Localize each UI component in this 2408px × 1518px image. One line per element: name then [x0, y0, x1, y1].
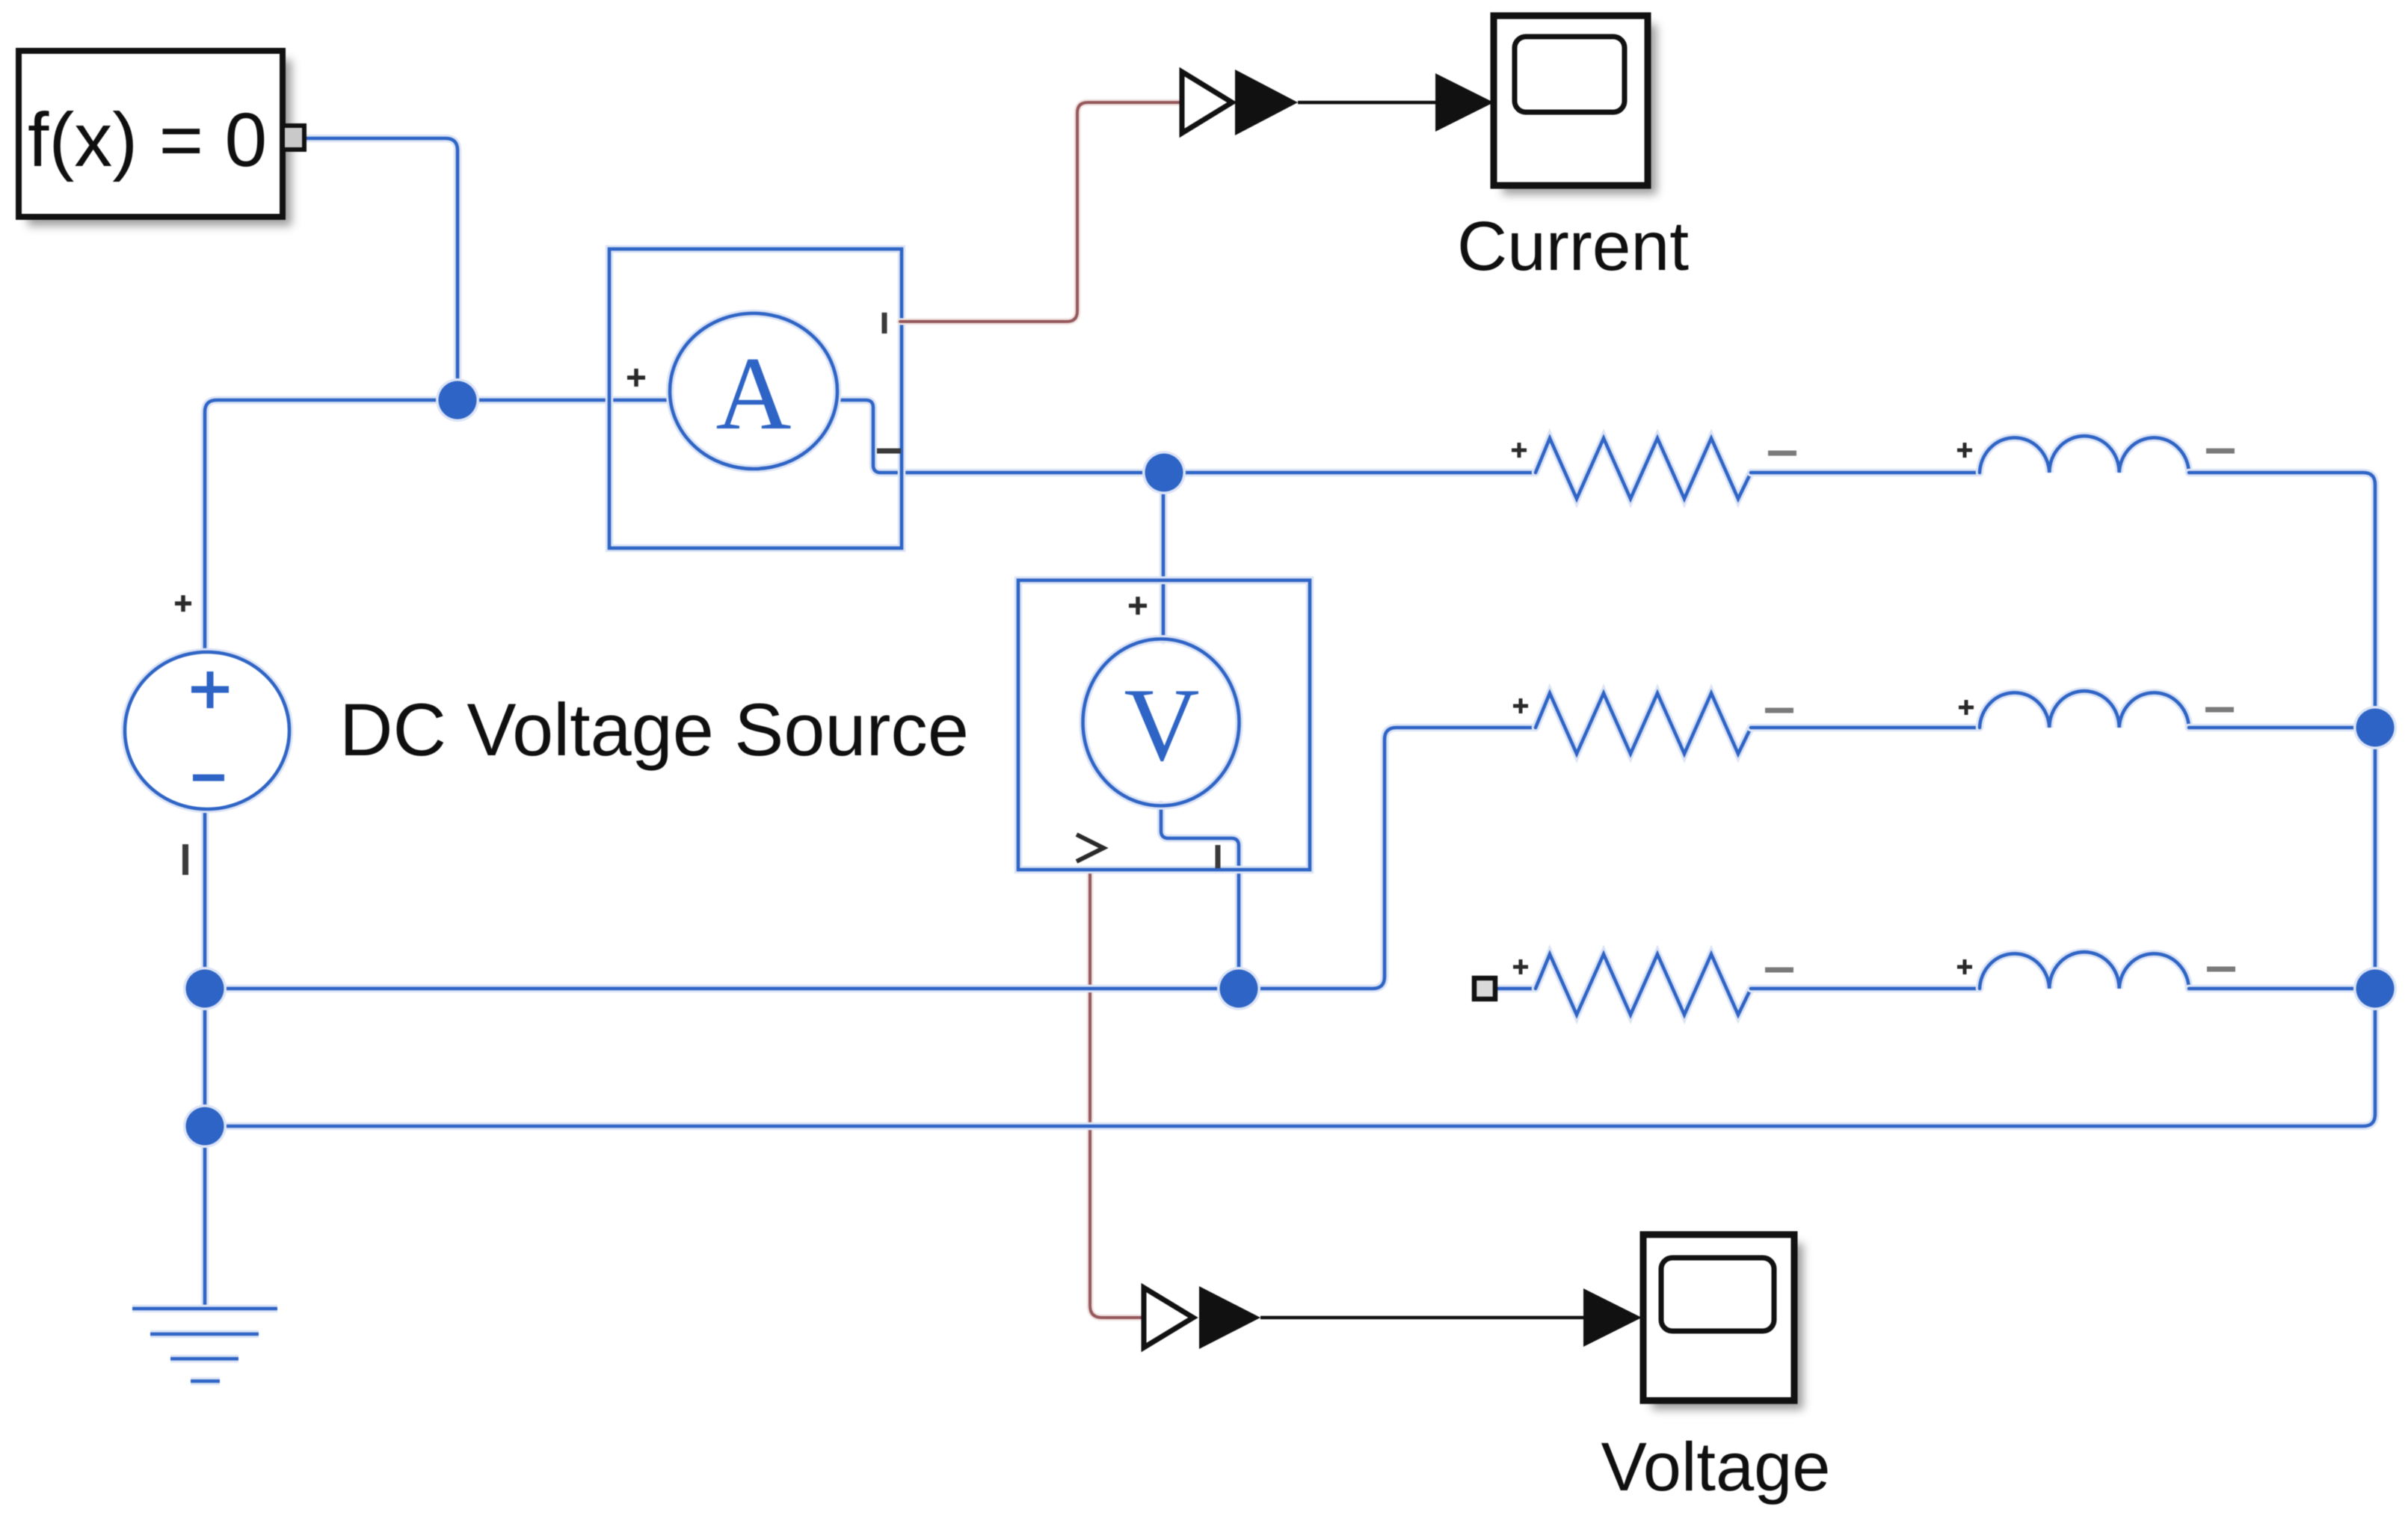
PS-Simulink converter 2	[1144, 1286, 1260, 1349]
node D junction (voltmeter minus / mid rail)	[1217, 967, 1260, 1010]
wire: DC source + terminal up and right to ammeter + input	[205, 400, 671, 652]
R1 - pin label	[1768, 451, 1796, 456]
Voltage scope block	[1643, 1235, 1794, 1401]
L2 - pin label	[2205, 707, 2234, 713]
shadow of Current scope	[1503, 25, 1657, 194]
svg-text:A: A	[715, 336, 791, 452]
resistor R2	[1536, 693, 1751, 754]
DC source + pin label	[175, 595, 191, 612]
L3 + pin label	[1957, 959, 1972, 974]
ground symbol	[132, 1309, 277, 1381]
R3 + pin label	[1513, 959, 1528, 974]
signal wire to Current scope	[1298, 73, 1494, 132]
label: Voltage	[1601, 1429, 1831, 1505]
R2 - pin label	[1765, 708, 1793, 713]
svg-text:Current: Current	[1457, 207, 1689, 285]
node C junction (DC minus / mid rail)	[183, 967, 227, 1010]
wire: mid rail from DC source minus to node D then up to resistor R2 (middle branch)	[205, 728, 1536, 989]
node B junction	[1142, 451, 1186, 494]
ammeter I pin label	[882, 313, 887, 334]
DC source - pin label (rotated)	[182, 844, 188, 875]
voltmeter + pin label	[1129, 597, 1147, 615]
wire: solver output down to node A	[304, 138, 458, 400]
open conserving port of R3	[1474, 978, 1495, 999]
ammeter U1 (current sensor)	[609, 249, 902, 548]
voltmeter V pin label (rotated V)	[1077, 835, 1103, 861]
wire: node B down to voltmeter + input	[1160, 473, 1168, 640]
svg-text:f(x) = 0: f(x) = 0	[28, 97, 267, 182]
svg-text:V: V	[1124, 667, 1199, 783]
DC voltage source V1	[125, 652, 289, 809]
solver block f(x)=0	[19, 51, 283, 217]
inductor L1	[1980, 436, 2189, 473]
resistor R3	[1536, 954, 1751, 1015]
shadow of solver block	[28, 60, 292, 226]
wire: R3 to L3	[1751, 985, 1980, 993]
L1 - pin label	[2206, 449, 2235, 454]
wire: ammeter I output (physical signal) to converter 1	[900, 102, 1181, 322]
node A junction	[436, 378, 479, 422]
inductor L3	[1980, 952, 2189, 989]
PS-Simulink converter 1	[1182, 70, 1298, 135]
L3 - pin label	[2207, 967, 2235, 972]
label: DC Voltage Source	[339, 688, 969, 771]
shadow of Voltage scope	[1652, 1244, 1803, 1410]
wire: voltmeter - terminal elbow down to node D	[1161, 805, 1239, 989]
wire: R1 to L1	[1751, 469, 1980, 477]
label: Current	[1457, 207, 1689, 285]
wire: ammeter output elbow right to resistor R1 (top branch)	[837, 400, 1536, 473]
wire: L1 down right side and bottom return to DC source - rail	[205, 473, 2375, 1126]
node G junction (DC minus / bottom rail)	[183, 1104, 227, 1148]
wire: DC source - terminal down to ground	[201, 811, 209, 1309]
resistor R1	[1536, 438, 1751, 499]
wire: R2 to L2	[1751, 724, 1980, 732]
ammeter + pin label	[627, 369, 645, 387]
wire: L2 to right rail node E	[2189, 724, 2375, 732]
R2 + pin label	[1513, 698, 1528, 713]
voltmeter U2 (voltage sensor)	[1018, 580, 1310, 870]
node F junction (right rail / bottom branch)	[2353, 967, 2397, 1010]
solver block port	[283, 126, 304, 150]
inductor L2	[1980, 691, 2189, 728]
svg-text:DC Voltage Source: DC Voltage Source	[339, 688, 969, 771]
R1 + pin label	[1512, 443, 1527, 458]
voltmeter - pin label (rotated)	[1216, 845, 1221, 868]
wire: L3 to right rail node F	[2189, 985, 2375, 993]
wire: voltmeter V output (physical signal) to converter 2	[1090, 870, 1144, 1318]
wire: stub from open port to resistor R3 (bottom branch)	[1498, 985, 1536, 993]
L1 + pin label	[1957, 443, 1972, 458]
L2 + pin label	[1959, 700, 1974, 715]
Current scope block	[1494, 16, 1648, 185]
node E junction (right rail / middle branch)	[2353, 706, 2397, 749]
signal wire to Voltage scope	[1260, 1288, 1642, 1347]
ammeter - pin label	[877, 449, 901, 454]
svg-text:Voltage: Voltage	[1601, 1429, 1831, 1505]
R3 - pin label	[1765, 968, 1793, 973]
